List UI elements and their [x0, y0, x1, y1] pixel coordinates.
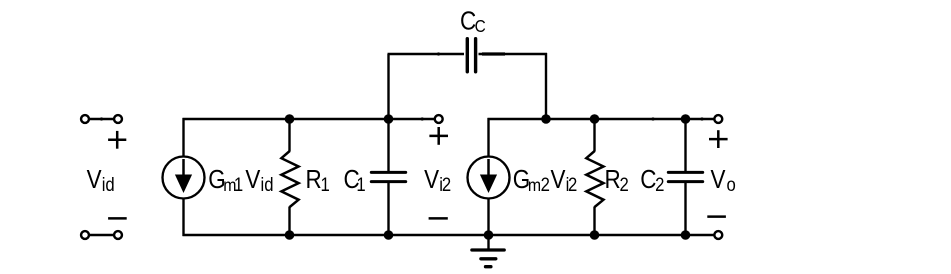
- label C1: [343, 166, 365, 195]
- input terminal bottom-left circle: [81, 231, 89, 239]
- svg-text:CC: CC: [460, 7, 486, 36]
- terminal Vo top circle: [714, 115, 722, 123]
- label R2: [605, 166, 629, 195]
- wire CC riser right: [545, 53, 547, 119]
- svg-text:R2: R2: [605, 166, 629, 195]
- wire CC top right horizontal: [479, 53, 548, 55]
- node junction dot C2 top: [681, 114, 691, 124]
- svg-text:Gm2Vi2: Gm2Vi2: [513, 166, 578, 195]
- capacitor C2: [668, 119, 702, 235]
- node junction dot R2 bottom: [590, 230, 600, 240]
- svg-text:Gm1Vid: Gm1Vid: [208, 166, 273, 195]
- wire stage1 left vertical top: [182, 118, 184, 157]
- label Vid: [87, 166, 115, 195]
- current source Gm1Vid circle: [163, 157, 205, 199]
- label Vi2: [424, 166, 451, 195]
- input terminal bottom-right circle: [114, 231, 122, 239]
- wire stage2 source vertical top: [487, 118, 489, 157]
- svg-text:Vo: Vo: [711, 166, 736, 195]
- current source Gm1Vid arrow: [175, 159, 192, 193]
- svg-text:Vid: Vid: [87, 166, 115, 195]
- capacitor CC riser left: [387, 54, 389, 118]
- plus sign at Vo: [709, 130, 728, 148]
- plus sign at Vid: [108, 131, 126, 149]
- node dot (small) on CC wire: [437, 52, 440, 55]
- svg-text:Vi2: Vi2: [424, 166, 451, 195]
- plus sign at Vi2: [429, 127, 448, 145]
- wire CC top left horizontal: [388, 53, 465, 55]
- resistor R1: [281, 119, 298, 235]
- node dot (small) before Vo terminal: [700, 117, 703, 120]
- node dot (small) on stage2 top rail: [651, 117, 654, 120]
- terminal Vi2 circle: [435, 115, 443, 123]
- node junction dot C1 top: [384, 114, 394, 124]
- wire stage1 top rail: [183, 118, 435, 120]
- svg-text:R1: R1: [305, 166, 329, 195]
- node junction dot C1 bottom: [384, 230, 394, 240]
- svg-text:C2: C2: [640, 166, 664, 195]
- wire common bottom rail: [183, 234, 715, 236]
- wire stage2 source vertical bottom: [487, 198, 489, 236]
- wire CC right thick overlap segment: [482, 52, 505, 55]
- label CC: [460, 7, 486, 36]
- current source Gm2Vi2 circle: [468, 157, 510, 199]
- node dot (small) on input top wire: [100, 117, 103, 120]
- node junction dot C2 bottom: [681, 230, 691, 240]
- label Gm1Vid: [208, 166, 273, 195]
- label Vo: [711, 166, 736, 195]
- resistor R2: [586, 119, 603, 235]
- minus sign at Vid: [108, 217, 127, 220]
- node junction dot CC right at stage2 rail: [541, 114, 551, 124]
- input terminal top-left circle: [81, 115, 89, 123]
- wire input bottom between terminals: [89, 234, 113, 236]
- wire input top between terminals: [89, 118, 113, 120]
- node junction dot R1 top: [285, 114, 295, 124]
- capacitor CC plates: [467, 39, 475, 72]
- wire stage2 top rail: [488, 118, 715, 120]
- node junction dot R2 top: [590, 114, 600, 124]
- input terminal top-right circle: [114, 115, 122, 123]
- svg-text:C1: C1: [343, 166, 365, 195]
- wire stage1 left vertical bottom: [182, 198, 184, 236]
- label R1: [305, 166, 329, 195]
- current source Gm2Vi2 arrow: [480, 159, 497, 193]
- label C2: [640, 166, 664, 195]
- ground: [472, 235, 504, 267]
- node junction dot R1 bottom: [285, 230, 295, 240]
- terminal Vo bottom circle: [714, 231, 722, 239]
- minus sign at Vi2: [429, 217, 448, 220]
- capacitor C1: [371, 119, 405, 235]
- label Gm2Vi2: [513, 166, 578, 195]
- node junction dot ground: [484, 230, 494, 240]
- minus sign at Vo: [707, 215, 726, 218]
- node dot (small) on stage1 top rail: [421, 117, 424, 120]
